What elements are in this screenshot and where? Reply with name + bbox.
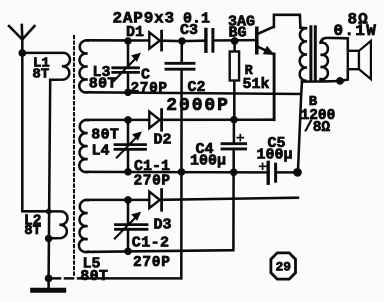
svg-text:D3: D3: [154, 217, 172, 234]
svg-text:D1: D1: [126, 24, 144, 41]
svg-text:270P: 270P: [133, 255, 171, 271]
svg-text:29: 29: [276, 260, 292, 275]
svg-text:80T: 80T: [80, 268, 108, 285]
svg-text:270P: 270P: [134, 173, 171, 189]
svg-text:100μ: 100μ: [190, 152, 226, 169]
svg-text:L4: L4: [92, 143, 110, 160]
svg-text:8T: 8T: [32, 66, 49, 82]
svg-text:80T: 80T: [91, 127, 119, 144]
svg-text:C3: C3: [180, 22, 198, 39]
svg-text:BG: BG: [229, 25, 247, 42]
svg-text:8T: 8T: [24, 223, 41, 239]
svg-text:0.1W: 0.1W: [334, 22, 378, 40]
svg-text:C2: C2: [188, 79, 206, 96]
svg-text:C1-1: C1-1: [134, 158, 170, 175]
svg-text:80T: 80T: [89, 75, 117, 92]
svg-text:270P: 270P: [131, 81, 168, 97]
svg-text:100μ: 100μ: [257, 146, 293, 163]
svg-text:C1-2: C1-2: [132, 234, 170, 251]
svg-text:2000P: 2000P: [166, 96, 230, 116]
svg-text:51k: 51k: [243, 76, 270, 93]
svg-text:D2: D2: [154, 132, 172, 149]
svg-text:/8Ω: /8Ω: [304, 120, 330, 136]
